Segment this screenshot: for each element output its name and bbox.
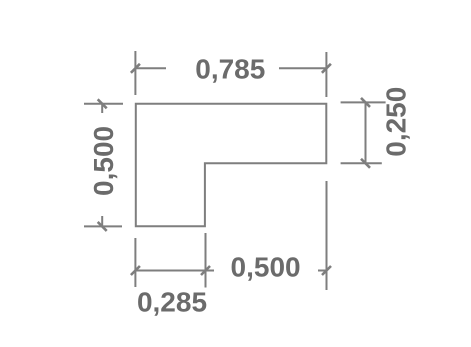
svg-text:0,250: 0,250 [381, 87, 412, 157]
dimension 0,250: top tick [361, 98, 370, 107]
svg-text:0,500: 0,500 [231, 252, 301, 283]
dimension 0,785: right extension line [325, 52, 327, 97]
dimension 0,250: top extension line [341, 101, 386, 103]
dimension 0,785: dimension line right segment [279, 67, 326, 69]
dimension 0,500 left: bottom tick [98, 222, 107, 231]
dimension 0,285 / 0,500 shared tick [201, 266, 210, 275]
dimension 0,500 left: top tick [98, 99, 107, 108]
dimension 0,285: left extension line [134, 238, 136, 287]
dimension 0,500 left: dimension line bottom stub [101, 216, 103, 226]
dimension 0,250: dimension line [365, 102, 367, 163]
dimension 0,250: bottom extension line [341, 162, 382, 164]
dimension 0,500 bottom: right tick [322, 266, 331, 275]
dimension 0,785: dimension line left segment [135, 67, 166, 69]
dimension 0,785: right tick [322, 64, 331, 73]
dimension 0,785: left tick [131, 64, 140, 73]
svg-text:0,785: 0,785 [195, 54, 265, 85]
dimension 0,500 bottom: dimension line left stub [206, 270, 215, 272]
svg-text:0,500: 0,500 [88, 126, 119, 196]
dimension 0,500 left: bottom extension line [84, 225, 122, 227]
dimension 0,285: left tick [131, 266, 140, 275]
dimension 0,500 left: dimension line top stub [101, 104, 103, 113]
svg-text:0,285: 0,285 [137, 286, 207, 317]
dimension 0,500 bottom: right extension line [326, 181, 328, 290]
dimension 0,285: right extension line [205, 233, 207, 288]
dimension 0,285: dimension line [135, 270, 205, 272]
dimension 0,500 left: top extension line [84, 103, 123, 105]
dimension 0,250: bottom tick [361, 159, 370, 168]
dimension 0,785: left extension line [134, 51, 136, 95]
dimension 0,500 bottom: dimension line right stub [318, 270, 327, 272]
part outline (L-shaped plate) [136, 104, 326, 227]
